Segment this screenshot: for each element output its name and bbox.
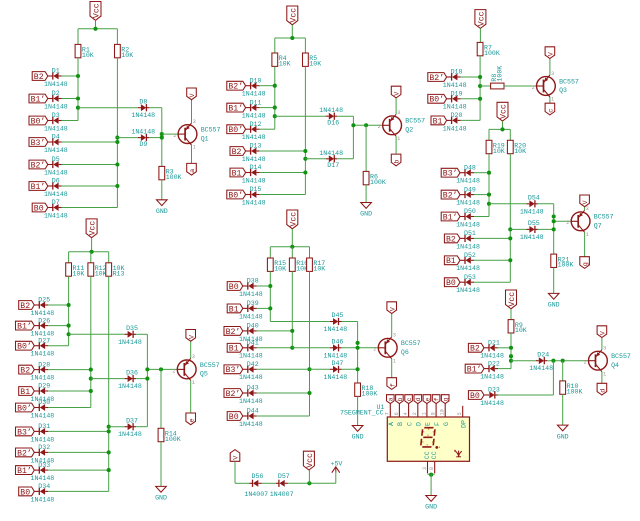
wire	[365, 185, 367, 203]
wire	[365, 125, 367, 171]
svg-text:10K: 10K	[95, 270, 107, 277]
diode D52	[460, 259, 465, 261]
junction	[508, 258, 512, 262]
junction	[115, 184, 119, 188]
svg-text:D20: D20	[451, 112, 463, 119]
wire	[342, 321, 358, 323]
node B1&#8217; flag	[465, 364, 484, 373]
svg-text:GND: GND	[156, 208, 168, 215]
svg-text:10K: 10K	[493, 148, 505, 155]
diode D3	[48, 120, 53, 122]
wire	[257, 392, 310, 394]
diode D17	[326, 158, 329, 160]
wire	[428, 473, 435, 475]
svg-text:2: 2	[412, 412, 418, 415]
junction	[107, 450, 111, 454]
junction	[290, 245, 294, 249]
wire	[474, 281, 510, 283]
power flag Vcc	[475, 10, 486, 29]
wire	[562, 394, 564, 425]
svg-text:10: 10	[440, 409, 446, 415]
junction	[93, 27, 97, 31]
svg-text:D11: D11	[250, 99, 262, 106]
svg-text:f: f	[434, 397, 441, 401]
wire	[62, 75, 78, 77]
display pin 8 (CC)	[434, 461, 436, 473]
junction	[509, 354, 513, 358]
svg-text:D21: D21	[488, 340, 500, 347]
display U1 7SEGMENT_CC body	[387, 417, 469, 461]
svg-text:1N4148: 1N4148	[480, 353, 504, 360]
svg-text:1N4148: 1N4148	[480, 374, 504, 381]
diode D33	[34, 469, 39, 471]
svg-text:B2: B2	[232, 148, 242, 157]
diode D15	[246, 194, 251, 196]
wire	[48, 430, 108, 432]
svg-text:D22: D22	[488, 360, 500, 367]
svg-text:B1: B1	[20, 388, 30, 397]
svg-text:D31: D31	[38, 423, 50, 430]
svg-text:1N4148: 1N4148	[480, 400, 504, 407]
svg-text:Vcc: Vcc	[508, 292, 517, 307]
svg-text:B1: B1	[229, 345, 239, 354]
svg-text:e: e	[424, 397, 431, 401]
svg-text:3: 3	[192, 354, 195, 360]
node B0&#8217; flag	[428, 94, 447, 103]
svg-text:D26: D26	[38, 317, 50, 324]
wire	[95, 20, 97, 29]
wire	[48, 407, 91, 409]
display pin 5 (DP)	[462, 406, 464, 417]
wire	[260, 150, 306, 152]
svg-text:1N4148: 1N4148	[456, 265, 480, 272]
svg-text:3: 3	[393, 333, 396, 339]
wire	[552, 361, 554, 395]
wire	[342, 347, 358, 349]
wire	[430, 474, 432, 495]
display digit 8	[421, 428, 435, 447]
svg-text:GND: GND	[557, 433, 569, 440]
svg-text:D40: D40	[247, 323, 259, 330]
diode D27	[34, 345, 39, 347]
junction	[509, 359, 513, 363]
svg-text:D53: D53	[464, 274, 476, 281]
junction	[160, 136, 164, 140]
junction	[89, 389, 93, 393]
junction	[478, 84, 482, 88]
display pin 10 (segment G)	[444, 404, 446, 417]
wire (base)	[554, 220, 572, 222]
wire	[601, 338, 603, 350]
wire	[498, 368, 511, 370]
svg-text:5: 5	[457, 412, 463, 415]
wire	[62, 185, 118, 187]
power flag Vcc	[86, 219, 97, 238]
node B2 flag	[19, 365, 35, 374]
svg-text:1N4148: 1N4148	[242, 134, 266, 141]
svg-text:D2: D2	[52, 90, 60, 97]
svg-text:100K: 100K	[558, 262, 574, 269]
wire (R4 column)	[274, 66, 276, 129]
wire	[553, 204, 555, 254]
svg-text:1N4148: 1N4148	[443, 104, 467, 111]
svg-text:CC: CC	[424, 451, 431, 459]
svg-text:B2: B2	[470, 345, 480, 354]
svg-text:C: C	[406, 422, 413, 426]
wire	[308, 470, 310, 483]
wire	[190, 380, 192, 413]
svg-text:1N4148: 1N4148	[44, 103, 68, 110]
diode D22	[484, 368, 489, 370]
power flag Vcc	[287, 210, 298, 229]
ground	[157, 200, 168, 206]
node B2&#8217; flag	[227, 81, 246, 90]
svg-text:D49: D49	[464, 186, 476, 193]
display pin 6 (segment B)	[398, 404, 400, 417]
svg-text:D56: D56	[252, 473, 264, 480]
wire	[260, 172, 306, 174]
resistor R17	[307, 258, 313, 271]
transistor Q3	[537, 77, 556, 96]
node B2 flag	[230, 147, 246, 156]
wire	[488, 129, 490, 140]
resistor R16	[289, 258, 295, 271]
wire	[549, 59, 551, 76]
node g flag (display segment G)	[441, 395, 449, 404]
node B1&#8217; flag	[29, 182, 48, 191]
junction	[67, 332, 71, 336]
wire	[489, 203, 526, 205]
wire	[291, 229, 293, 247]
diode D16	[326, 115, 329, 117]
svg-text:e: e	[188, 418, 196, 422]
junction	[107, 468, 111, 472]
node B0 flag	[227, 412, 243, 421]
resistor R4	[272, 53, 278, 66]
svg-text:D19: D19	[451, 91, 463, 98]
transistor Q4	[589, 351, 608, 370]
wire	[257, 330, 293, 332]
svg-text:D27: D27	[38, 337, 50, 344]
diode D53	[460, 281, 465, 283]
junction	[351, 123, 355, 127]
svg-text:1: 1	[397, 136, 400, 142]
power flag Vcc	[90, 2, 101, 21]
wire	[62, 120, 78, 122]
wire	[161, 108, 163, 167]
node V flag (Q1 emitter)	[187, 88, 197, 100]
svg-text:g: g	[582, 262, 590, 266]
transistor Q7	[571, 212, 590, 231]
wire	[549, 97, 551, 103]
svg-text:D38: D38	[247, 278, 259, 285]
node B2&#8217; flag	[224, 327, 243, 336]
node B0 flag	[32, 203, 48, 212]
wire	[269, 247, 271, 258]
diode D24	[536, 360, 539, 362]
diode D51	[460, 237, 465, 239]
wire	[191, 145, 193, 163]
svg-text:2: 2	[566, 220, 569, 226]
junction	[107, 429, 111, 433]
svg-text:B2: B2	[20, 367, 30, 376]
wire	[69, 333, 125, 335]
node B3&#8217; flag	[29, 138, 48, 147]
svg-text:D42: D42	[247, 361, 259, 368]
resistor R13	[106, 263, 112, 276]
junction	[508, 227, 512, 231]
node B1 flag	[19, 387, 35, 396]
svg-text:1N4148: 1N4148	[44, 212, 68, 219]
svg-text:B: B	[397, 422, 404, 426]
junction	[90, 250, 94, 254]
svg-text:10K: 10K	[279, 61, 291, 68]
diode D42	[243, 368, 248, 370]
diode D6	[48, 185, 53, 187]
svg-text:DP: DP	[460, 420, 467, 428]
diode D12	[246, 128, 251, 130]
resistor R20	[507, 140, 513, 153]
svg-text:D16: D16	[327, 120, 339, 127]
junction	[307, 481, 311, 485]
node b flag (Q2 collector)	[391, 154, 401, 166]
svg-text:D34: D34	[38, 483, 50, 490]
svg-text:100K: 100K	[165, 436, 181, 443]
svg-text:100K: 100K	[370, 179, 386, 186]
svg-text:B2: B2	[446, 235, 456, 244]
svg-text:D52: D52	[464, 252, 476, 259]
wire (R12 column)	[90, 276, 92, 407]
svg-text:10K: 10K	[514, 148, 526, 155]
svg-text:D25: D25	[38, 297, 50, 304]
junction	[76, 74, 80, 78]
node B0 flag	[227, 282, 243, 291]
diode D29	[34, 390, 39, 392]
svg-text:9: 9	[431, 412, 437, 415]
junction	[290, 36, 294, 40]
svg-text:D35: D35	[126, 325, 138, 332]
wire	[357, 322, 359, 384]
wire	[257, 307, 271, 309]
svg-text:D43: D43	[247, 385, 259, 392]
diode D49	[460, 194, 465, 196]
junction	[429, 473, 433, 477]
svg-text:D17: D17	[327, 162, 339, 169]
svg-text:1N4148: 1N4148	[529, 365, 553, 372]
svg-text:1N4148: 1N4148	[242, 91, 266, 98]
svg-text:1N4148: 1N4148	[31, 351, 55, 358]
svg-text:D1: D1	[52, 68, 60, 75]
node a flag (Q1 collector)	[187, 163, 197, 175]
svg-text:BC557: BC557	[559, 78, 579, 85]
svg-text:D48: D48	[464, 164, 476, 171]
svg-text:1N4148: 1N4148	[456, 178, 480, 185]
svg-text:1N4148: 1N4148	[456, 287, 480, 294]
svg-text:D32: D32	[38, 444, 50, 451]
junction	[487, 193, 491, 197]
svg-text:1N4148: 1N4148	[324, 326, 348, 333]
junction	[303, 149, 307, 153]
resistor R15	[267, 258, 273, 271]
diode D13	[246, 150, 251, 152]
svg-text:D15: D15	[250, 186, 262, 193]
junction	[145, 367, 149, 371]
diode D36	[125, 378, 128, 380]
svg-text:100K: 100K	[362, 391, 378, 398]
wire (R19 column)	[488, 154, 490, 217]
junction	[552, 214, 556, 218]
svg-text:D14: D14	[250, 164, 262, 171]
node B0 flag	[19, 487, 35, 496]
node B0&#8217; flag	[16, 341, 35, 350]
svg-text:f: f	[389, 383, 397, 387]
wire	[116, 29, 118, 45]
svg-text:BC557: BC557	[401, 340, 421, 347]
power flag Vcc	[303, 451, 314, 470]
display pin 2 (segment D)	[417, 404, 419, 417]
wire	[337, 115, 353, 117]
wire	[335, 471, 337, 483]
wire	[91, 378, 125, 380]
svg-text:Q7: Q7	[594, 223, 602, 230]
svg-text:BC557: BC557	[201, 127, 221, 134]
junction	[509, 346, 513, 350]
junction	[561, 359, 565, 363]
node f flag (display segment F)	[432, 395, 440, 404]
svg-text:Vcc: Vcc	[289, 8, 298, 23]
svg-text:D55: D55	[528, 220, 540, 227]
svg-text:6: 6	[394, 412, 400, 415]
svg-text:D6: D6	[52, 178, 60, 185]
wire	[48, 345, 68, 347]
wire (R5 column)	[304, 66, 306, 194]
ground	[361, 203, 372, 209]
node a flag (display segment A)	[387, 395, 395, 404]
svg-text:d: d	[599, 389, 607, 393]
svg-text:1: 1	[193, 145, 196, 151]
resistor R10	[560, 381, 566, 394]
node V flag (Q6 emitter)	[387, 302, 397, 314]
junction	[107, 425, 111, 429]
wire	[352, 116, 354, 159]
node B2 flag	[19, 301, 35, 310]
diode D47	[330, 368, 333, 370]
svg-text:3: 3	[551, 71, 554, 77]
junction	[303, 170, 307, 174]
svg-text:1N4148: 1N4148	[31, 412, 55, 419]
svg-text:GND: GND	[352, 434, 364, 441]
junction	[89, 368, 93, 372]
power flag Vcc	[497, 102, 508, 121]
transistor Q6	[378, 338, 397, 357]
wire	[48, 325, 68, 327]
svg-text:D4: D4	[52, 134, 60, 141]
resistor R21	[551, 254, 557, 267]
wire (R11 column)	[68, 276, 70, 346]
wire	[262, 482, 276, 484]
junction	[478, 97, 482, 101]
diode D4	[48, 141, 53, 143]
node V flag (Q5 emitter)	[186, 330, 196, 342]
junction	[508, 236, 512, 240]
node c flag (Q3 collector)	[545, 103, 555, 115]
wire	[260, 128, 275, 130]
svg-text:1N4148: 1N4148	[456, 221, 480, 228]
svg-text:1N4148: 1N4148	[44, 169, 68, 176]
wire	[395, 98, 397, 114]
diode D10	[246, 85, 251, 87]
wire	[117, 137, 137, 139]
svg-text:10K: 10K	[121, 52, 133, 59]
node b flag (display segment B)	[396, 395, 404, 404]
wire	[538, 203, 554, 205]
wire	[553, 268, 555, 294]
svg-text:1N4148: 1N4148	[44, 147, 68, 154]
diode D54	[526, 203, 529, 205]
svg-text:Q1: Q1	[201, 135, 209, 142]
resistor R6	[363, 171, 369, 184]
svg-text:2: 2	[532, 85, 535, 91]
svg-text:D51: D51	[464, 230, 476, 237]
wire	[108, 252, 110, 263]
svg-text:GND: GND	[360, 211, 372, 218]
svg-text:100K: 100K	[567, 388, 583, 395]
svg-text:F: F	[434, 422, 441, 426]
svg-text:D18: D18	[451, 69, 463, 76]
junction	[500, 127, 504, 131]
wire	[474, 216, 489, 218]
svg-text:1N4148: 1N4148	[44, 81, 68, 88]
wire (R13 column)	[108, 276, 110, 491]
wire	[77, 29, 79, 45]
svg-text:2: 2	[173, 133, 176, 139]
wire (base)	[504, 85, 537, 87]
resistor R14	[158, 428, 164, 441]
svg-text:D13: D13	[250, 143, 262, 150]
svg-text:B0: B0	[20, 488, 30, 497]
svg-text:1N4148: 1N4148	[239, 353, 263, 360]
svg-text:2: 2	[172, 368, 175, 374]
node f flag (Q6 collector)	[387, 378, 397, 390]
svg-text:c: c	[547, 109, 555, 113]
resistor R11	[66, 263, 72, 276]
svg-text:B2: B2	[34, 73, 44, 82]
svg-text:D44: D44	[247, 408, 259, 415]
wire	[136, 378, 147, 380]
diode D11	[246, 107, 251, 109]
svg-text:D37: D37	[126, 417, 138, 424]
svg-text:3: 3	[603, 346, 606, 352]
diode D31	[34, 430, 39, 432]
junction	[307, 391, 311, 395]
svg-text:B0: B0	[446, 279, 456, 288]
svg-text:1N4148: 1N4148	[31, 375, 55, 382]
diode D55	[526, 228, 529, 230]
wire (base)	[353, 124, 382, 126]
node V flag (Q2 emitter)	[391, 86, 401, 98]
ground	[156, 486, 167, 492]
svg-text:b: b	[397, 397, 404, 401]
svg-text:a: a	[189, 169, 197, 173]
svg-text:1: 1	[421, 412, 427, 415]
junction	[159, 367, 163, 371]
svg-text:D9: D9	[139, 141, 147, 148]
resistor R12	[88, 263, 94, 276]
wire	[160, 442, 162, 487]
svg-text:Q5: Q5	[200, 371, 208, 378]
diode D9	[138, 137, 141, 139]
svg-text:10K: 10K	[309, 61, 321, 68]
